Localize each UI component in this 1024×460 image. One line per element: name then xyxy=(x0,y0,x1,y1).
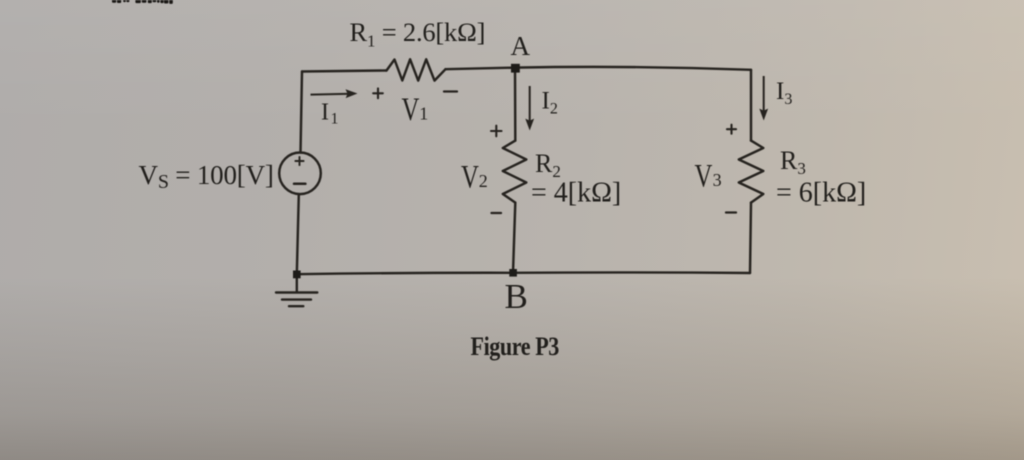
voltage source plus sign xyxy=(295,157,303,165)
label V2 minus xyxy=(492,212,502,214)
svg-text:= 4[kΩ]: = 4[kΩ] xyxy=(531,178,621,209)
wire top from source to R1 xyxy=(302,71,387,72)
current arrow I3 xyxy=(759,76,768,121)
svg-text:R2: R2 xyxy=(535,149,561,181)
wire middle vertical lower xyxy=(513,203,515,273)
current arrow I2 xyxy=(525,86,534,131)
ground xyxy=(276,277,317,306)
resistor R2 xyxy=(503,141,527,203)
svg-text:R1 = 2.6[kΩ]: R1 = 2.6[kΩ] xyxy=(350,17,486,51)
wire right vertical upper xyxy=(750,70,752,141)
svg-text:Figure P3: Figure P3 xyxy=(471,333,560,361)
svg-text:1: 1 xyxy=(419,104,428,124)
svg-text:R3: R3 xyxy=(780,146,806,178)
ground node junction dot xyxy=(293,271,301,279)
svg-text:I3: I3 xyxy=(776,78,792,108)
svg-text:B: B xyxy=(505,277,528,316)
svg-text:I2: I2 xyxy=(542,88,558,118)
wire source bottom vertical xyxy=(297,194,299,274)
svg-text:V: V xyxy=(695,158,713,194)
label V3 minus xyxy=(726,211,736,213)
node B junction dot xyxy=(509,269,517,277)
wire top-left vertical xyxy=(301,72,303,153)
svg-text:3: 3 xyxy=(713,170,722,190)
wire right vertical lower xyxy=(750,203,751,273)
wire bottom xyxy=(297,272,750,274)
label V2 plus xyxy=(491,126,502,137)
current arrow I1 xyxy=(311,89,358,98)
node A junction dot xyxy=(511,64,520,73)
resistor R1 xyxy=(387,59,446,80)
svg-text:A: A xyxy=(511,31,531,61)
svg-text:I1: I1 xyxy=(321,100,339,128)
label V1 plus xyxy=(373,88,383,98)
svg-text:2: 2 xyxy=(479,171,488,191)
voltage source VS xyxy=(279,153,321,195)
svg-text:VS = 100[V]: VS = 100[V] xyxy=(139,160,274,193)
wire middle vertical upper xyxy=(514,68,517,141)
cropped text at top edge xyxy=(112,0,173,4)
label V1 minus xyxy=(444,90,457,92)
svg-text:V: V xyxy=(461,159,479,195)
svg-text:V: V xyxy=(402,92,420,128)
label V3 plus xyxy=(727,125,736,134)
wire node A to top-right corner xyxy=(515,67,751,70)
svg-text:= 6[kΩ]: = 6[kΩ] xyxy=(776,178,866,209)
wire R1 to node A xyxy=(446,68,516,70)
voltage source minus sign xyxy=(294,183,305,186)
resistor R3 xyxy=(739,141,764,203)
